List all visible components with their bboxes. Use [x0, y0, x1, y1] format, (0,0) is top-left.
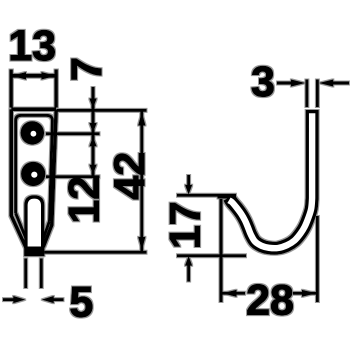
- svg-text:13: 13: [8, 22, 56, 70]
- side view: J hook inner channel (white core): [229, 113, 312, 248]
- dim 42: dimension line: [140, 110, 143, 252]
- front view: strip bottom edge: [25, 253, 45, 257]
- svg-text:17: 17: [162, 201, 210, 249]
- svg-text:7: 7: [63, 57, 111, 81]
- dim 5: arrowheads: [13, 296, 54, 303]
- front view: plate inner face line (rounded): [16, 115, 53, 241]
- front view: solid bottom junction mass: [24, 247, 44, 257]
- dim 13: extension lines: [11, 70, 56, 108]
- dim 17: extension lines: [177, 195, 246, 256]
- dim 13: dimension line: [11, 74, 56, 78]
- svg-text:28: 28: [246, 277, 294, 325]
- svg-text:5: 5: [69, 278, 93, 326]
- dim 13: arrowheads: [11, 72, 56, 80]
- dim 5: extension lines: [26, 259, 42, 289]
- extension line: plate bottom reference: [45, 251, 147, 254]
- side view: hook tip lip face: [218, 195, 237, 198]
- extension line: plate top reference: [57, 109, 147, 112]
- svg-text:42: 42: [106, 152, 154, 200]
- dim 7 / dim 12: arrowheads: [89, 99, 96, 175]
- dim 17: arrowheads: [185, 185, 192, 266]
- dim 3: extension lines: [307, 80, 318, 108]
- hole 2 center mark: [31, 172, 37, 178]
- front view: hook back plate outer outline: [11, 109, 56, 247]
- dim 42: arrowheads: [138, 112, 145, 251]
- extension line: hole 2 center reference: [46, 175, 100, 178]
- dim 28: dimension line segments: [221, 292, 317, 295]
- svg-text:12: 12: [61, 176, 109, 224]
- dim 17: dimension line stems: [187, 175, 190, 282]
- dim 3: arrowheads: [291, 79, 333, 86]
- svg-text:3: 3: [251, 58, 275, 106]
- extension line: hole 1 center reference: [46, 132, 100, 135]
- side view: J hook body (black band): [229, 110, 312, 248]
- dim 5: dimension line tails: [3, 298, 64, 301]
- dim 28: extension lines: [221, 199, 317, 302]
- hole 1 center mark: [31, 131, 37, 137]
- dim 3: dimension line tails: [277, 82, 349, 85]
- dim 7 / dim 12: shared dimension line: [92, 87, 95, 178]
- front view: hook strip tip (overlaps tapered bottom): [26, 197, 43, 254]
- dim 28: arrowheads: [222, 290, 317, 297]
- hole 2 (lower screw hole): [21, 162, 45, 186]
- hole 1 (upper screw hole): [21, 121, 45, 145]
